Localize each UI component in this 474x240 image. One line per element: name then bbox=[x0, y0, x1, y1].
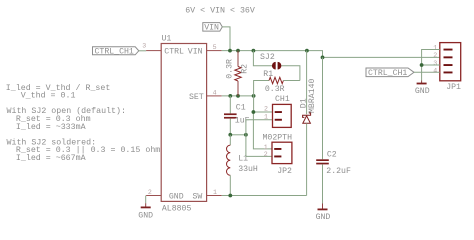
ground for C2 bbox=[316, 204, 331, 222]
svg-text:1: 1 bbox=[264, 114, 268, 121]
svg-text:JP1: JP1 bbox=[446, 83, 461, 92]
svg-text:I_led = ~667mA: I_led = ~667mA bbox=[16, 153, 86, 163]
svg-text:0.3R: 0.3R bbox=[265, 85, 285, 94]
node LED- junction dots bbox=[228, 133, 247, 137]
svg-text:R2: R2 bbox=[241, 64, 250, 74]
diode D1 MBRA140 bbox=[299, 51, 317, 196]
svg-text:3: 3 bbox=[433, 60, 437, 67]
svg-text:GND: GND bbox=[138, 211, 153, 220]
capacitor C1 1uF bbox=[224, 96, 250, 135]
node JP1 pin3 dot bbox=[420, 63, 424, 67]
svg-text:5: 5 bbox=[213, 44, 217, 51]
svg-text:AL8805: AL8805 bbox=[162, 205, 192, 214]
svg-text:SET: SET bbox=[189, 93, 204, 102]
wire CH1.1/JP2.2 node bbox=[246, 120, 273, 157]
wire node LED- rail (C1/L1 junction) bbox=[230, 134, 246, 136]
pin 3 CTRL stub bbox=[142, 42, 161, 50]
connector CH1 bbox=[264, 95, 291, 127]
svg-text:3: 3 bbox=[142, 42, 146, 49]
connector JP1 bbox=[433, 43, 461, 92]
pin 1 SW stub bbox=[207, 189, 222, 196]
svg-text:2: 2 bbox=[148, 189, 152, 196]
note: current formula text block bbox=[6, 83, 161, 163]
svg-text:2: 2 bbox=[264, 151, 268, 158]
svg-text:4: 4 bbox=[213, 89, 217, 96]
capacitor C2 2.2uF bbox=[316, 57, 351, 203]
flag VIN bbox=[203, 23, 223, 33]
svg-text:CTRL_CH1: CTRL_CH1 bbox=[368, 69, 407, 78]
svg-text:GND: GND bbox=[169, 192, 184, 201]
ground for JP1 bbox=[415, 81, 430, 96]
node SW junction dot bbox=[228, 194, 232, 198]
resistor R2 0.3R vertical bbox=[226, 51, 250, 96]
node CH1 pin2 dot bbox=[252, 110, 256, 114]
svg-text:33uH: 33uH bbox=[238, 165, 258, 174]
flag CTRL_CH1 right bbox=[366, 68, 414, 78]
pin 2 GND stub bbox=[146, 189, 161, 196]
svg-text:VIN: VIN bbox=[188, 47, 203, 56]
svg-text:6V < VIN < 36V: 6V < VIN < 36V bbox=[185, 6, 255, 15]
svg-text:2: 2 bbox=[433, 52, 437, 59]
svg-text:U1: U1 bbox=[162, 35, 172, 44]
svg-text:JP2: JP2 bbox=[277, 167, 292, 176]
svg-text:I_led = ~333mA: I_led = ~333mA bbox=[16, 122, 86, 132]
wire VIN flag to rail bbox=[222, 27, 230, 51]
ground for U1 pin2 bbox=[138, 196, 153, 221]
svg-text:CTRL_CH1: CTRL_CH1 bbox=[95, 48, 134, 57]
node VIN junction dots bbox=[228, 49, 324, 60]
svg-text:M02PTH: M02PTH bbox=[263, 133, 293, 142]
svg-text:0.3R: 0.3R bbox=[226, 59, 235, 79]
svg-text:2.2uF: 2.2uF bbox=[326, 167, 351, 176]
svg-text:GND: GND bbox=[415, 87, 430, 96]
IC U1 AL8805 buck LED driver bbox=[161, 35, 206, 214]
inductor L1 33uH bbox=[227, 135, 258, 196]
svg-text:CH1: CH1 bbox=[275, 95, 290, 104]
svg-text:1: 1 bbox=[433, 44, 437, 51]
flag CTRL_CH1 left bbox=[93, 47, 139, 57]
wire SET rail bbox=[222, 95, 254, 97]
wire SET to CH1.2/JP2.1 bbox=[253, 96, 272, 149]
svg-text:V_thd = 0.1: V_thd = 0.1 bbox=[21, 91, 76, 101]
svg-text:GND: GND bbox=[316, 213, 331, 222]
svg-text:CTRL: CTRL bbox=[164, 47, 184, 56]
wire flag to pin 3 bbox=[139, 50, 146, 52]
resistor R1 0.3R horizontal bbox=[254, 70, 300, 96]
svg-text:R1: R1 bbox=[263, 70, 273, 79]
svg-text:VIN: VIN bbox=[204, 24, 219, 33]
svg-text:SW: SW bbox=[193, 192, 203, 201]
svg-text:D1: D1 bbox=[299, 98, 308, 108]
svg-text:2: 2 bbox=[264, 106, 268, 113]
svg-text:C1: C1 bbox=[236, 103, 246, 112]
svg-text:1: 1 bbox=[213, 189, 217, 196]
pin 5 VIN stub bbox=[207, 44, 222, 51]
connector JP2 M02PTH bbox=[263, 133, 293, 175]
wire VIN top rail to JP1 pin2 bbox=[222, 51, 440, 58]
svg-text:MBRA140: MBRA140 bbox=[308, 79, 317, 113]
svg-text:C2: C2 bbox=[327, 151, 337, 160]
wire flag to JP1 pin4 bbox=[414, 71, 440, 73]
node SET junction dots bbox=[228, 94, 255, 98]
svg-text:1uF: 1uF bbox=[235, 116, 250, 125]
solder jumper SJ2 bbox=[253, 51, 300, 81]
svg-text:4: 4 bbox=[433, 67, 437, 74]
pin 4 SET stub bbox=[207, 89, 222, 96]
wire JP1 gnd vertical + pins 1,3 bbox=[422, 50, 440, 81]
svg-text:1: 1 bbox=[264, 144, 268, 151]
wire SW rail bbox=[222, 195, 307, 197]
svg-text:SJ2: SJ2 bbox=[260, 53, 275, 62]
